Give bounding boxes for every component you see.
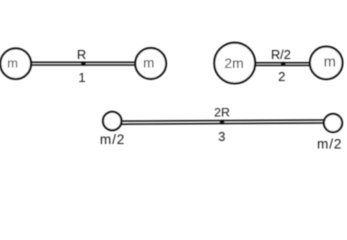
system 2: right ball mass m (310, 47, 343, 80)
system 3: right ball mass m/2 (324, 114, 342, 132)
svg-text:m/2: m/2 (100, 132, 125, 147)
system 3: left ball mass m/2 (103, 112, 121, 130)
svg-text:m: m (143, 55, 154, 70)
svg-text:m/2: m/2 (317, 136, 342, 151)
svg-text:3: 3 (218, 129, 225, 144)
svg-text:2m: 2m (224, 56, 243, 71)
svg-text:2: 2 (278, 69, 285, 84)
system 1: midpoint dot (81, 61, 85, 65)
svg-text:2R: 2R (214, 106, 230, 120)
system 2: rod (255, 63, 311, 66)
svg-text:R: R (77, 47, 86, 62)
system 1: rod (30, 62, 136, 65)
system 2: midpoint dot (281, 62, 285, 66)
svg-text:R/2: R/2 (271, 47, 291, 62)
system 3: midpoint dot (220, 120, 224, 124)
svg-text:m: m (324, 55, 336, 71)
system 1: right ball mass m (135, 48, 166, 79)
system 2: left ball mass 2m (214, 43, 255, 84)
svg-text:1: 1 (78, 70, 85, 85)
svg-text:m: m (7, 55, 18, 70)
system 1: left ball mass m (0, 48, 31, 79)
system 3: rod (122, 120, 324, 124)
